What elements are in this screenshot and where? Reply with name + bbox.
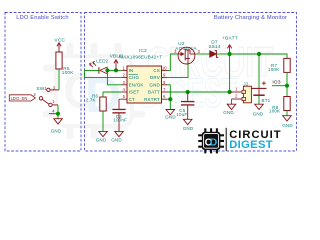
svg-text:LED2: LED2 bbox=[96, 58, 108, 63]
svg-text:LDO_EN: LDO_EN bbox=[11, 96, 28, 101]
IC2 left pin stubs bbox=[122, 70, 127, 99]
junction node IN/VBUS bbox=[114, 68, 118, 72]
J2 pin stubs bbox=[230, 91, 242, 93]
ground (J2) bbox=[227, 104, 236, 109]
svg-text:GND: GND bbox=[96, 137, 107, 142]
svg-text:2.7K: 2.7K bbox=[86, 98, 96, 103]
wire D7 cathode to +BATT node bbox=[216, 53, 229, 55]
svg-text:MAX1898EUB42+T: MAX1898EUB42+T bbox=[119, 55, 162, 60]
capacitor C4 bbox=[119, 98, 122, 100]
svg-text:GND: GND bbox=[51, 129, 62, 134]
ground (R6) bbox=[99, 131, 108, 136]
watermark CIRCUIT DIGEST text bbox=[141, 38, 273, 116]
wire CS to U2 bbox=[167, 54, 178, 70]
svg-text:IC2: IC2 bbox=[139, 48, 147, 54]
svg-text:CS: CS bbox=[153, 68, 160, 73]
LED D2 light arrows bbox=[90, 62, 96, 68]
svg-text:10uF: 10uF bbox=[176, 112, 187, 117]
global label LDO_EN bbox=[9, 95, 35, 101]
IC2 pin numbers left bbox=[123, 65, 126, 99]
resistor R6 bbox=[102, 92, 104, 97]
IC2 pin names right bbox=[144, 68, 160, 102]
wire RSTRT/GND to ground bbox=[167, 99, 170, 109]
power flag +BATT bbox=[228, 45, 232, 55]
ground (C5) bbox=[183, 119, 192, 124]
svg-text:BT1: BT1 bbox=[262, 98, 271, 103]
svg-text:VCC: VCC bbox=[54, 37, 65, 43]
wire LED cathode to CHG bbox=[84, 70, 121, 77]
ground (IC2) bbox=[166, 110, 175, 115]
svg-text:D: D bbox=[210, 138, 218, 149]
wire LED anode to IN bbox=[107, 69, 121, 71]
svg-text:LDO Enable Switch: LDO Enable Switch bbox=[16, 15, 68, 21]
svg-text:100nF: 100nF bbox=[113, 118, 127, 123]
logo CircuitDigest bbox=[198, 128, 281, 154]
wire EN/OK to IN net bbox=[107, 70, 121, 84]
wire +BATT rail bbox=[230, 54, 287, 58]
junction IO3 node bbox=[285, 84, 289, 88]
ground (SW1) bbox=[54, 119, 63, 124]
resistor R5 bbox=[56, 52, 62, 69]
svg-text:SS14: SS14 bbox=[208, 44, 220, 49]
svg-text:GND: GND bbox=[282, 123, 293, 128]
svg-text:GND: GND bbox=[183, 126, 194, 131]
svg-text:GND: GND bbox=[165, 114, 176, 119]
wire R7 to IO3 node bbox=[286, 72, 288, 96]
svg-text:GND: GND bbox=[223, 110, 234, 115]
junction node IN/EN bbox=[105, 68, 109, 72]
svg-text:10: 10 bbox=[162, 65, 167, 70]
watermark chip logo bbox=[46, 46, 142, 136]
svg-text:DRV: DRV bbox=[150, 75, 160, 80]
svg-text:IO3: IO3 bbox=[272, 80, 280, 86]
svg-text:BATT: BATT bbox=[148, 90, 160, 95]
ground (C4) bbox=[115, 131, 124, 136]
svg-text:GND: GND bbox=[253, 111, 264, 116]
power flag VCC bbox=[57, 43, 61, 53]
wire GND pin8 down bbox=[167, 85, 170, 99]
section box LDO Enable Switch bbox=[5, 13, 81, 152]
wire J2 pin2 to ground bbox=[231, 99, 233, 104]
wire SW1 to GND bbox=[57, 105, 59, 119]
IC2 pin numbers right bbox=[162, 65, 167, 99]
battery BT1 bbox=[258, 54, 260, 88]
junction C5 node bbox=[186, 90, 190, 94]
svg-text:DIGEST: DIGEST bbox=[229, 139, 273, 151]
junction J2 node bbox=[228, 90, 232, 94]
wire R5 to SW1 pin3 bbox=[58, 69, 60, 90]
svg-text:100K: 100K bbox=[268, 67, 279, 72]
svg-text:EN/OK: EN/OK bbox=[129, 82, 144, 87]
svg-text:SW1: SW1 bbox=[36, 86, 47, 91]
IC2 pin names left bbox=[129, 68, 144, 102]
wire U2 drain to D7 bbox=[195, 53, 210, 55]
resistor R7 bbox=[284, 58, 290, 72]
svg-text:GND: GND bbox=[149, 82, 160, 87]
svg-text:100K: 100K bbox=[62, 70, 74, 75]
section box Battery Charging & Monitor bbox=[85, 13, 297, 152]
power flag VBUS bbox=[114, 60, 118, 71]
svg-text:RSTRT: RSTRT bbox=[144, 97, 160, 102]
svg-text:CHG: CHG bbox=[129, 75, 140, 80]
label IO3 bbox=[272, 85, 287, 87]
junction battery tap bbox=[257, 52, 261, 56]
svg-text:GND: GND bbox=[111, 137, 122, 142]
svg-text:Battery Charging & Monitor: Battery Charging & Monitor bbox=[214, 15, 287, 21]
svg-text:100K: 100K bbox=[269, 109, 280, 114]
wire DRV to U2 gate bbox=[167, 63, 188, 78]
junction +BATT node bbox=[228, 52, 232, 56]
IC U1 MAX1898 body bbox=[127, 66, 162, 103]
svg-text:ISET: ISET bbox=[129, 90, 140, 95]
resistor R8 bbox=[284, 97, 290, 111]
svg-text:IN: IN bbox=[129, 68, 134, 73]
junction SW1 pin4 bbox=[56, 112, 60, 116]
ground (BT1) bbox=[255, 104, 264, 109]
svg-text:CT: CT bbox=[129, 97, 135, 102]
wire +BATT down to J2 bbox=[229, 54, 231, 92]
wire BATT pin7 rail bbox=[167, 91, 230, 93]
ground (R8) bbox=[283, 116, 292, 121]
capacitor C5 bbox=[187, 92, 189, 101]
svg-text:+BATT: +BATT bbox=[222, 36, 238, 42]
IC2 right pin stubs bbox=[162, 70, 168, 99]
junction pin6 node bbox=[168, 97, 172, 101]
